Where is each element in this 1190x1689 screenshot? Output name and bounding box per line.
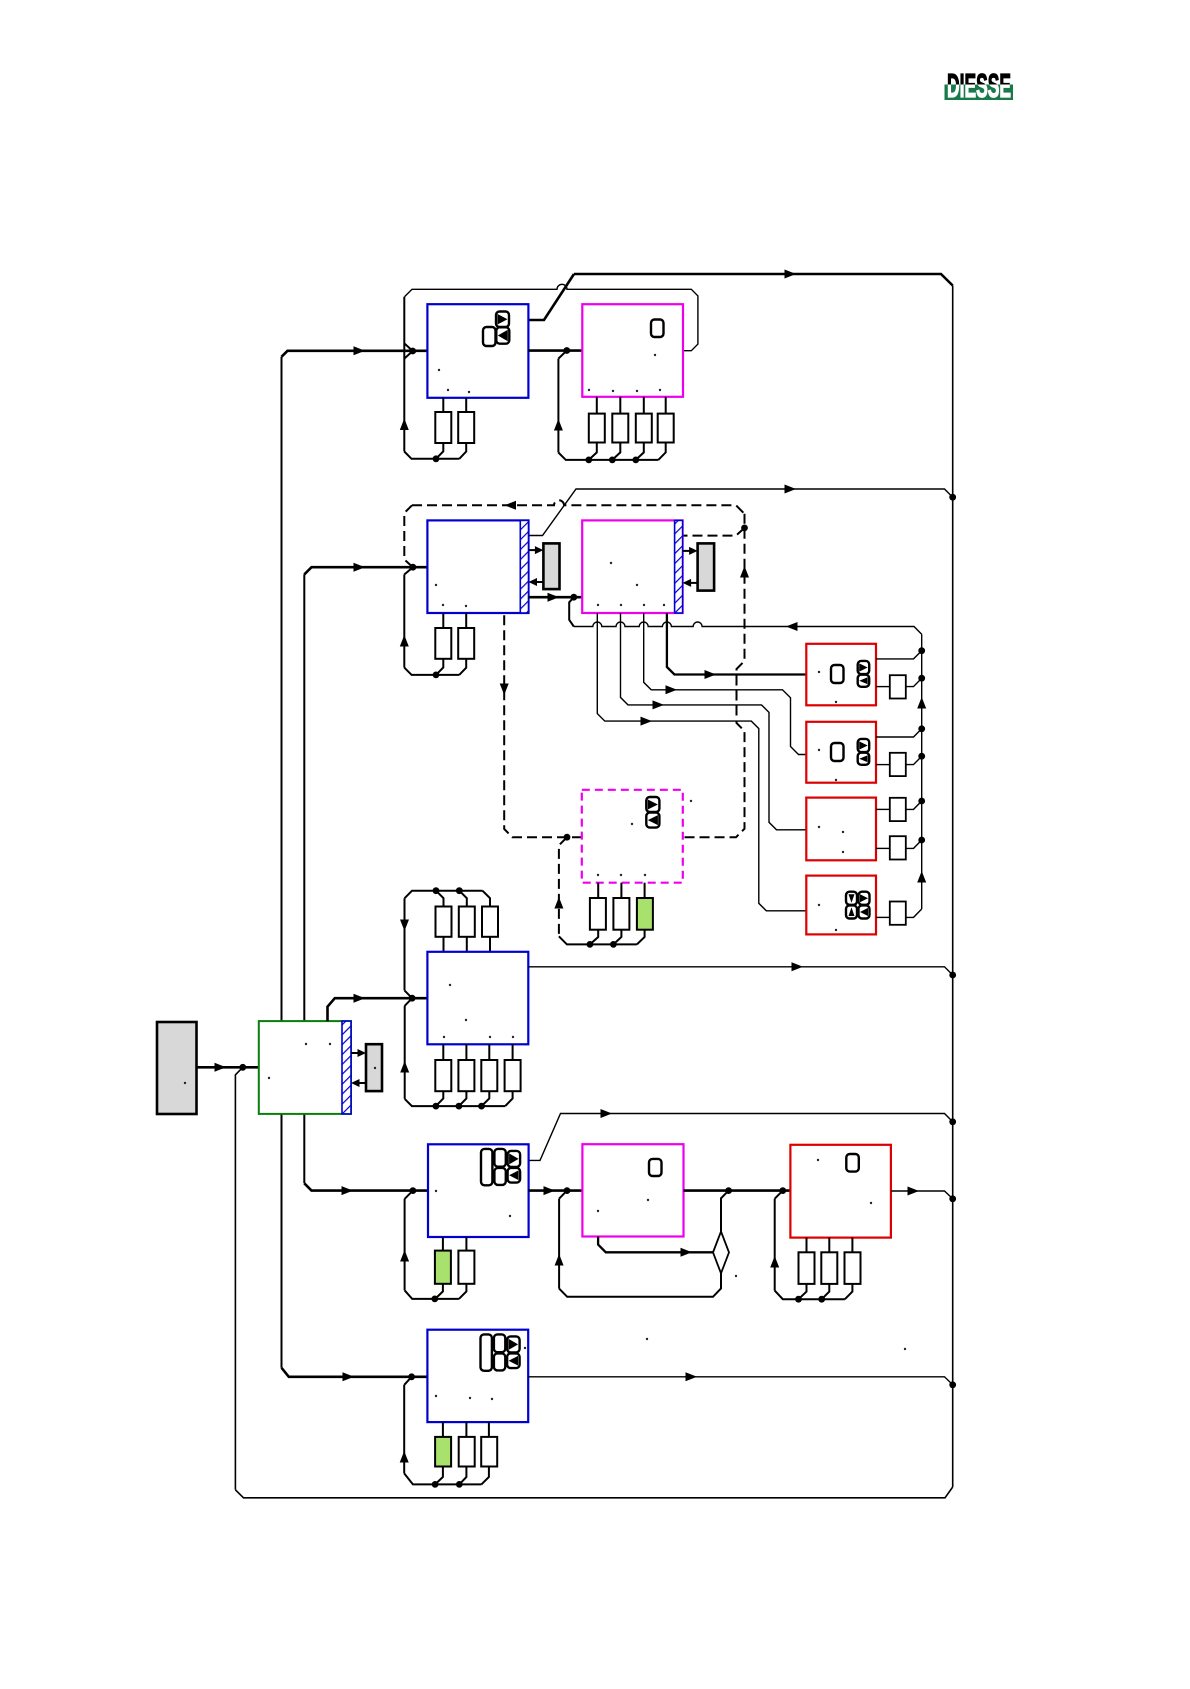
- wire M1 coil1 return: [589, 443, 597, 460]
- wire right main vertical: [952, 286, 954, 1488]
- faint text remnant: [305, 1043, 307, 1045]
- faint text remnant: [268, 1077, 270, 1079]
- junction R1 out: [918, 647, 925, 654]
- icon valve V1 flow left: [496, 327, 509, 343]
- icon R2 flow left: [858, 753, 870, 765]
- faint text remnant: [449, 984, 451, 986]
- faint text remnant: [588, 389, 590, 391]
- arrow up M1 riser: [554, 419, 563, 431]
- junction sec6 supply: [408, 1373, 415, 1380]
- faint text remnant: [620, 604, 622, 606]
- junction dashed right riser: [741, 525, 748, 532]
- junction dispenser inlet: [409, 995, 416, 1002]
- arrow P1 to V2: [529, 578, 538, 586]
- arrow V3 to M4: [544, 1186, 556, 1195]
- faint text remnant: [469, 1397, 471, 1399]
- junction D1 low bus b: [456, 1103, 463, 1110]
- coil M1c: [636, 414, 652, 443]
- wire dashed bypass left riser: [404, 505, 413, 567]
- faint text remnant: [465, 1019, 467, 1021]
- faint text remnant: [663, 604, 665, 606]
- wire disp top riser: [404, 898, 406, 990]
- faint text remnant: [447, 389, 449, 391]
- arrow return bus: [786, 622, 798, 631]
- arrow P2 to M2: [683, 579, 692, 587]
- icon R1 port: [831, 665, 844, 683]
- faint text remnant: [647, 1199, 649, 1201]
- wire M1 coil1 lead: [596, 397, 598, 414]
- manifold M4: [582, 1144, 683, 1236]
- wire top supply line: [574, 274, 953, 286]
- dispenser valve block D1: [427, 952, 528, 1045]
- hatch membrane M2: [675, 520, 683, 613]
- junction R2 port: [918, 753, 925, 760]
- arrow main supply sec1: [354, 346, 366, 355]
- faint text remnant: [612, 390, 614, 392]
- arrow up M3 riser: [554, 897, 563, 909]
- wire R2 port to bus: [906, 756, 922, 764]
- wire M4 bottom outlet: [598, 1237, 713, 1253]
- wire diagonal from needle valve to top line: [529, 274, 575, 320]
- faint text remnant: [644, 874, 646, 876]
- wire M1 coil bus: [558, 453, 658, 460]
- junction R5 bus b: [818, 1296, 825, 1303]
- wire sec1 loop riser: [403, 297, 405, 452]
- junction sec5 coil bus: [431, 1296, 438, 1303]
- arrow tank outlet: [215, 1063, 227, 1072]
- coil D1 low a: [435, 1060, 451, 1091]
- wire diag sec2 riser: [404, 567, 413, 574]
- wire disp top coil2 out: [466, 937, 468, 952]
- faint text remnant: [468, 391, 470, 393]
- wire sec2 loop riser: [403, 575, 405, 668]
- pump P3 on PU: [366, 1044, 382, 1091]
- wire R5 coil1 lead: [806, 1238, 808, 1253]
- faint text remnant: [818, 749, 820, 751]
- wire M2 out3 to R3: [621, 613, 807, 830]
- faint text remnant: [442, 604, 444, 606]
- wire V4 coil2 lead: [465, 1422, 467, 1437]
- arrow down dashed drop: [500, 684, 509, 696]
- hatch membrane V2: [520, 520, 528, 613]
- faint text remnant: [184, 1082, 186, 1084]
- wire R3 to port: [876, 808, 890, 810]
- faint text remnant: [835, 701, 837, 703]
- icon V4 syringe: [481, 1334, 492, 1370]
- arrow main supply sec6: [343, 1372, 355, 1381]
- wire sec2 coil bus: [404, 668, 459, 675]
- coil M3c level sensor: [637, 898, 653, 930]
- wire R5 coil3 lead: [851, 1238, 853, 1253]
- wire sec5 upper line: [529, 1114, 953, 1161]
- faint text remnant: [524, 1347, 526, 1349]
- icon R1 flow right: [858, 661, 870, 674]
- coil D1 low d: [505, 1060, 521, 1091]
- arrow M2 out4: [641, 717, 653, 726]
- port fitting R4: [890, 902, 906, 925]
- junction R5 bus a: [795, 1296, 802, 1303]
- wire sec6 coil bus: [404, 1473, 481, 1484]
- valve block V4 waste: [427, 1330, 528, 1422]
- coil V4c: [481, 1437, 497, 1467]
- wire V1 coil1 lead: [442, 398, 444, 412]
- faint text remnant: [512, 1036, 514, 1038]
- wire M1 coil2 lead: [619, 397, 621, 414]
- wire R5 coil3 return: [845, 1284, 853, 1299]
- wire D1 coil4 lead: [512, 1044, 514, 1060]
- cuvette station R4: [806, 876, 876, 935]
- wire D1 low coil4 return: [505, 1091, 512, 1106]
- junction M3 bus b: [610, 941, 617, 948]
- faint text remnant: [610, 562, 612, 564]
- faint text remnant: [654, 354, 656, 356]
- faint text remnant: [904, 1348, 906, 1350]
- icon V3 flow left: [508, 1168, 520, 1183]
- junction M1 bus c: [632, 457, 639, 464]
- wire M3 coil2 lead: [620, 883, 622, 898]
- wire M1 coil4 lead: [665, 397, 667, 414]
- junction right vertical disp: [949, 972, 956, 979]
- mixing valve M3: [582, 790, 683, 883]
- wire R5 coil2 lead: [828, 1238, 830, 1253]
- junction M4 out diamond: [725, 1187, 732, 1194]
- wire V4 coil2 return: [459, 1467, 466, 1485]
- wire V1 to M1: [528, 349, 582, 352]
- wire bottom return line: [235, 1487, 952, 1498]
- wire V4 outlet: [528, 1377, 953, 1385]
- manifold M1: [582, 304, 683, 397]
- wire R5 coil bus: [775, 1291, 845, 1300]
- coil M1d: [658, 414, 674, 443]
- wire M3 coil2 return: [613, 930, 621, 945]
- wire return bus to manifolds: [574, 622, 922, 634]
- arrow up M4 riser: [555, 1254, 564, 1266]
- arrow M2 out1: [705, 670, 717, 679]
- valve block V3 rinse: [428, 1144, 529, 1237]
- wire dashed bypass right riser: [683, 514, 745, 837]
- icon valve V1 flow right: [496, 312, 509, 328]
- wire M4 bottom bus: [559, 1273, 721, 1297]
- arrow dashed bypass top: [505, 501, 517, 510]
- arrow PU to P3: [358, 1049, 367, 1057]
- wire main supply sec6: [282, 1368, 428, 1377]
- wire M2 to P2: [683, 550, 692, 552]
- wire V3 coil1 return: [435, 1284, 443, 1299]
- wire diag disp junction down: [405, 998, 413, 1006]
- junction V2-M2 line: [570, 594, 577, 601]
- wire V1 coil1 return: [436, 443, 443, 459]
- wire M1 coil4 return: [658, 443, 665, 460]
- arrow up R5 riser: [770, 1256, 779, 1268]
- port fitting R2: [890, 753, 906, 776]
- icon R4 down: [846, 892, 857, 905]
- coil D1c: [482, 907, 498, 937]
- junction R3 port: [918, 837, 925, 844]
- wire D1 coil1 lead: [442, 1044, 444, 1060]
- arrow M2 out2: [666, 685, 678, 694]
- wire R2 top out: [876, 729, 922, 737]
- icon R5 port: [846, 1154, 859, 1172]
- wire PU to P3: [351, 1052, 360, 1054]
- icon M3 flow right: [646, 797, 659, 812]
- DIESSE logo: [945, 67, 1014, 104]
- wire tank outlet: [197, 1066, 259, 1069]
- faint text remnant: [646, 1338, 648, 1340]
- coil V4b: [459, 1437, 475, 1467]
- arrow up sec2 riser: [400, 635, 409, 647]
- junction sec1 supply: [409, 348, 416, 355]
- wire R2 to port: [876, 764, 890, 766]
- junction right vertical sec5a: [949, 1118, 956, 1125]
- junction D1 low bus c: [478, 1103, 485, 1110]
- port fitting R1: [890, 675, 906, 698]
- arrow PU outlet: [354, 994, 366, 1003]
- arrow down disp top riser: [400, 920, 409, 932]
- junction R3 port: [918, 798, 925, 805]
- faint text remnant: [329, 1043, 331, 1045]
- coil V4a level sensor: [435, 1437, 451, 1467]
- coil D1a: [436, 907, 452, 937]
- valve block V2 washing: [427, 520, 528, 613]
- junction right vertical V4: [949, 1381, 956, 1388]
- pump P1 on V2: [543, 543, 559, 589]
- icon R2 flow right: [858, 739, 870, 752]
- junction R2 out: [918, 725, 925, 732]
- wire M1 coil3 return: [636, 443, 644, 460]
- wire M2 out1 to R1: [667, 613, 806, 675]
- coil V3a level sensor: [435, 1251, 451, 1284]
- coil R5a: [799, 1252, 815, 1284]
- wire M3 coil bus: [559, 936, 637, 944]
- coil D1 low b: [458, 1060, 474, 1091]
- faint text remnant: [835, 929, 837, 931]
- arrow M2 out3: [653, 700, 665, 709]
- wire D1 low coil3 return: [482, 1091, 490, 1106]
- wire P3 to PU: [359, 1082, 367, 1084]
- arrow V2 to M2: [548, 593, 560, 602]
- junction sec1 coil bus: [433, 455, 440, 462]
- faint text remnant: [597, 604, 599, 606]
- wire disp top coil1 out: [443, 937, 445, 952]
- coil R5c: [845, 1252, 861, 1284]
- coil R5b: [821, 1252, 837, 1284]
- wire R4 port to bus end: [906, 909, 922, 917]
- faint text remnant: [443, 1036, 445, 1038]
- icon M4 port: [649, 1159, 662, 1176]
- junction right vertical R5: [949, 1195, 956, 1202]
- icon V3 syringe: [481, 1149, 492, 1185]
- wire R4 to port: [876, 916, 890, 918]
- faint text remnant: [818, 904, 820, 906]
- icon R2 port: [831, 743, 844, 761]
- icon V3 port a: [494, 1149, 505, 1167]
- wire D1 low coil1 return: [436, 1091, 443, 1106]
- wire M4 to R5: [684, 1189, 791, 1192]
- wire disp top coil1 lead: [436, 891, 444, 907]
- wire V3 coil2 lead: [465, 1237, 467, 1251]
- wire diag M1 riser top: [558, 351, 566, 359]
- arrow sec5 upper line: [601, 1109, 613, 1118]
- cuvette station R1: [806, 644, 876, 706]
- faint text remnant: [835, 779, 837, 781]
- hatch membrane PU: [342, 1021, 351, 1114]
- junction sec5 supply: [410, 1187, 417, 1194]
- wire dashed branch to M2 hatch: [683, 528, 745, 536]
- wire cuvette bus: [921, 634, 923, 909]
- junction M4 out R5: [779, 1187, 786, 1194]
- faint text remnant: [659, 389, 661, 391]
- junction D1 low bus a: [433, 1103, 440, 1110]
- wire M4 loop riser: [558, 1199, 560, 1289]
- wire main supply sec1: [282, 351, 428, 357]
- faint text remnant: [509, 1215, 511, 1217]
- arrow R5 outlet: [908, 1187, 920, 1196]
- wire PU outlet: [328, 998, 428, 1021]
- arrow up dashed riser: [740, 566, 749, 578]
- faint text remnant: [643, 604, 645, 606]
- wire M2 out2 to R2: [644, 613, 807, 755]
- wire M3 coil3 lead: [644, 883, 646, 898]
- faint text remnant: [842, 851, 844, 853]
- wire diag junction up sec1: [404, 343, 412, 351]
- wire R5 outlet: [891, 1191, 953, 1199]
- junction M1 bus b: [609, 457, 616, 464]
- junction disp top bus a: [433, 887, 440, 894]
- arrow up cuvette bus 1: [917, 697, 926, 709]
- faint text remnant: [465, 605, 467, 607]
- port fitting R3: [890, 836, 906, 859]
- arrow M2 to P2: [689, 547, 698, 555]
- icon M3 flow left: [646, 813, 659, 828]
- wire diag sec5 riser: [405, 1191, 413, 1199]
- wire D1 coil3 lead: [488, 1044, 490, 1060]
- junction disp top bus b: [456, 887, 463, 894]
- wire disp bottom riser: [404, 1006, 406, 1099]
- wire V4 coil1 lead: [442, 1422, 444, 1437]
- coil D1 low c: [481, 1060, 497, 1091]
- wire V1 coil2 return: [459, 443, 466, 459]
- wire M3 coil1 lead: [597, 883, 599, 898]
- arrow up disp bottom riser: [400, 1061, 409, 1073]
- wire group return line sec1: [405, 284, 698, 350]
- coil M3a: [590, 898, 606, 930]
- junction tank outlet: [239, 1064, 246, 1071]
- wire M1 loop riser: [557, 359, 559, 453]
- wire sec5 coil bus: [405, 1290, 459, 1299]
- coil V2b: [458, 628, 474, 659]
- coil M3b: [613, 898, 629, 930]
- faint text remnant: [636, 390, 638, 392]
- cuvette station R2: [806, 722, 876, 783]
- wire main supply sec2: [304, 567, 427, 574]
- pump unit PU (green): [259, 1021, 351, 1114]
- faint text remnant: [842, 831, 844, 833]
- wire M2 out4 to R4: [597, 613, 806, 911]
- icon V4 port a: [494, 1334, 505, 1352]
- manifold M2: [582, 520, 682, 613]
- wire V3 coil2 return: [459, 1284, 467, 1299]
- coil M1a: [589, 414, 605, 443]
- wire V2 coil1 lead: [442, 613, 444, 628]
- wire R3 port to bus: [906, 801, 922, 809]
- wire V4 coil3 lead: [488, 1422, 490, 1437]
- check valve diamond: [713, 1232, 729, 1274]
- arrow P3 to PU: [351, 1079, 360, 1087]
- wire V3 to M4: [529, 1189, 583, 1192]
- arrow dispenser outlet: [792, 962, 804, 971]
- wire M3 coil3 return: [637, 930, 645, 945]
- junction sec2 supply: [410, 564, 417, 571]
- wire sec2 upper return: [529, 489, 953, 536]
- wire V2 coil2 return: [459, 659, 466, 675]
- wire V4 coil3 return: [481, 1467, 489, 1485]
- wire V3 coil1 lead: [442, 1237, 444, 1251]
- wire disp top coil3 lead: [483, 891, 491, 907]
- arrow main supply sec2: [354, 563, 366, 572]
- wire disp top bus: [405, 891, 483, 899]
- pump P2 on M2: [698, 543, 715, 590]
- faint text remnant: [597, 874, 599, 876]
- faint text remnant: [620, 874, 622, 876]
- wire dispenser outlet: [528, 967, 952, 975]
- wire disp top coil2 lead: [459, 891, 467, 907]
- cuvette station R3: [806, 798, 876, 861]
- junction right vertical sec2: [949, 494, 956, 501]
- port fitting R3: [890, 798, 906, 821]
- junction R1 port: [918, 675, 925, 682]
- wire dashed M3 coil riser: [559, 837, 567, 936]
- wire diag junction down sec1: [404, 351, 412, 359]
- wire V2 to P1: [529, 549, 538, 551]
- wire riser A left distribution: [281, 357, 283, 1368]
- wire diag sec6 riser: [404, 1377, 411, 1385]
- icon V3 port b: [494, 1168, 505, 1185]
- faint text remnant: [491, 1398, 493, 1400]
- coil D1b: [459, 907, 475, 937]
- junction M1 bus a: [585, 457, 592, 464]
- arrow up cuvette bus 2: [917, 871, 926, 883]
- icon R4 left: [859, 905, 870, 918]
- junction sec2 coil bus: [433, 672, 440, 679]
- junction sec6 bus a: [432, 1481, 439, 1488]
- icon M1 port: [651, 320, 664, 338]
- coil V1a: [435, 412, 451, 443]
- arrow up sec5 riser: [400, 1250, 409, 1262]
- wire M3 coil1 return: [590, 930, 598, 945]
- wire sec5 loop riser: [404, 1199, 406, 1290]
- wire R1 port to bus: [906, 678, 922, 686]
- wire V2 coil2 lead: [465, 613, 467, 628]
- faint text remnant: [374, 1067, 376, 1069]
- wire sec1 coil bus: [404, 452, 459, 459]
- wire R1 to port: [876, 686, 890, 688]
- junction dashed bottom: [564, 834, 571, 841]
- wire tank drop to bottom loop: [235, 1067, 242, 1490]
- arrow V2 to P1: [535, 546, 544, 554]
- coil V2a: [435, 628, 451, 659]
- faint text remnant: [870, 1202, 872, 1204]
- icon valve V1 port: [483, 327, 496, 346]
- wire R1 top out: [876, 651, 922, 659]
- faint text remnant: [636, 584, 638, 586]
- faint text remnant: [438, 369, 440, 371]
- wire sec6 loop riser: [403, 1385, 405, 1474]
- wire D1 coil2 lead: [465, 1044, 467, 1060]
- icon R4 up: [846, 905, 857, 918]
- wire V4 coil1 return: [435, 1467, 443, 1485]
- arrow on top supply line: [785, 270, 797, 279]
- faint text remnant: [818, 671, 820, 673]
